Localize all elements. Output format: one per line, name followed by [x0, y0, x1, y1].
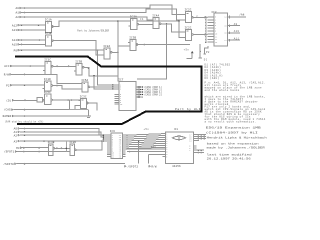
- svg-text:/CAS3 (RAM 2): /CAS3 (RAM 2): [144, 93, 162, 96]
- svg-text:16: 16: [224, 33, 226, 35]
- svg-text:9: 9: [215, 31, 216, 33]
- svg-text:a no result with schematics.: a no result with schematics.: [205, 121, 257, 124]
- svg-text:E: E: [166, 156, 167, 158]
- IC8 pin join vertical: [205, 17, 207, 42]
- gate IC3C: [78, 95, 89, 108]
- wire RAM G row: [127, 148, 162, 150]
- svg-text:Part by Johannes/SOLDER: Part by Johannes/SOLDER: [77, 30, 109, 33]
- wire P0 branch down to IC7: [98, 50, 115, 85]
- svg-text:7: 7: [215, 28, 216, 30]
- svg-text:R/W: R/W: [4, 73, 10, 77]
- gate IC2C: [183, 27, 194, 41]
- svg-text:ACC: ACC: [4, 65, 10, 68]
- svg-text:(D): (D): [6, 98, 12, 102]
- wire A0b: [24, 128, 26, 130]
- svg-text:12: 12: [215, 39, 217, 41]
- gate IC3A: [129, 16, 140, 30]
- svg-text:+5v: +5v: [151, 145, 157, 148]
- svg-text:(C)1984-1997 by HLI: (C)1984-1997 by HLI: [206, 131, 258, 135]
- svg-text:E56/19 Expansion 1MB: E56/19 Expansion 1MB: [206, 126, 261, 130]
- gate IC5A: [80, 79, 91, 92]
- wire IC3A out: [140, 23, 151, 25]
- svg-text:13: 13: [215, 42, 217, 44]
- gate IC1A: [44, 19, 55, 33]
- wire ACC: [30, 65, 32, 67]
- svg-text:/SFOT1: /SFOT1: [4, 150, 15, 154]
- IC7 right short row: [136, 96, 138, 98]
- svg-text:+5v: +5v: [144, 128, 150, 131]
- svg-text:/SFOT2: /SFOT2: [128, 165, 139, 169]
- wire A14: [21, 39, 23, 41]
- wire RAM A row: [148, 153, 162, 155]
- pullup 2: [200, 51, 201, 52]
- wire P0: [21, 49, 23, 51]
- wire A15: [21, 44, 23, 46]
- svg-text:A14: A14: [12, 39, 18, 42]
- svg-text:A0: A0: [15, 7, 19, 10]
- svg-text:R/W: R/W: [151, 165, 157, 169]
- svg-text:5: 5: [215, 22, 216, 24]
- IC7 left pins upper: [115, 84, 120, 86]
- thick section border: [15, 56, 201, 124]
- IC IC8: [211, 11, 227, 46]
- RAM right pins upper: [194, 134, 197, 136]
- wire IC4A node down: [137, 24, 167, 79]
- RAM left pins: [162, 133, 165, 135]
- wire A2b: [24, 134, 26, 136]
- svg-text:44256: 44256: [172, 165, 181, 168]
- svg-text:Hendrik Lipka & Hirschbach: Hendrik Lipka & Hirschbach: [207, 135, 267, 139]
- svg-text:PU: PU: [206, 51, 210, 54]
- svg-text:10: 10: [120, 104, 122, 106]
- wire A2: [24, 16, 26, 18]
- net /SFOT2: [125, 165, 127, 167]
- wire to ground: [70, 109, 89, 111]
- svg-text:A8: A8: [196, 14, 198, 17]
- wire node21 cont: [137, 20, 179, 22]
- wire IC1D out: [56, 85, 58, 87]
- wire P2: [24, 84, 26, 86]
- IC7 right rows CAS RAM: [136, 86, 138, 88]
- svg-text:Part by HLI: Part by HLI: [175, 107, 201, 111]
- svg-text:11: 11: [215, 36, 217, 38]
- wire branch into IC3B: [118, 45, 128, 47]
- wire IC3B out to y76: [88, 67, 90, 69]
- wire M3: [23, 147, 25, 149]
- svg-text:A2: A2: [15, 16, 19, 19]
- svg-text:IC7: IC7: [118, 78, 124, 81]
- gate IC1D: [43, 78, 54, 91]
- svg-text:6: 6: [215, 25, 216, 27]
- wire IC5C out: [67, 99, 69, 101]
- IC6 left pins: [107, 134, 111, 136]
- svg-text:D6 (A0b): D6 (A0b): [205, 77, 220, 80]
- wire IC1B out: [55, 41, 102, 55]
- IC6 to RAM wires: [126, 135, 127, 136]
- gate IC4B: [46, 141, 56, 155]
- wire A1: [24, 12, 26, 14]
- crossing column: [65, 141, 67, 151]
- svg-text:4: 4: [215, 20, 216, 22]
- wire A13: [21, 29, 23, 31]
- wire /CAS: [24, 109, 26, 111]
- IC6 right pins: [123, 134, 126, 136]
- gate IC2A: [102, 45, 113, 59]
- svg-text:7: 7: [189, 150, 190, 152]
- svg-text:26.12.1997 20:41:56: 26.12.1997 20:41:56: [207, 156, 251, 160]
- RAM bottom left pins: [162, 148, 165, 150]
- wire RAM W row: [129, 151, 130, 152]
- pullup 1 +5V arrow: [191, 51, 194, 53]
- svg-text:/SFOT0: /SFOT0: [3, 162, 14, 166]
- comment text block: [205, 63, 266, 123]
- IC IC6: [110, 130, 123, 159]
- wire A0: [24, 7, 26, 9]
- svg-text:4: 4: [120, 89, 121, 91]
- IC8 left pins: [208, 16, 215, 18]
- gate IC1B: [44, 32, 55, 46]
- IC8 bottom pin PU: [205, 46, 208, 53]
- RAM right pins lower: [194, 145, 197, 147]
- RAM notch: [172, 136, 185, 140]
- R/W drop: [147, 154, 149, 163]
- svg-text:3: 3: [215, 17, 216, 19]
- gate IC1C: [43, 59, 54, 75]
- svg-text:15: 15: [224, 25, 226, 27]
- gate IC5C: [44, 91, 54, 104]
- ground symbol: [88, 110, 90, 116]
- svg-text:A12: A12: [12, 24, 18, 27]
- svg-text:M3: M3: [16, 147, 20, 150]
- gate IC3B: [74, 60, 85, 75]
- svg-text:10: 10: [215, 34, 217, 36]
- svg-text:14: 14: [224, 17, 226, 19]
- gate IC2C: [183, 9, 194, 23]
- wire branch to IC7 pin3: [93, 75, 95, 77]
- svg-text:RAMEN: RAMEN: [3, 115, 12, 118]
- svg-text:A15: A15: [12, 44, 18, 47]
- gate IC3B: [128, 37, 139, 51]
- svg-text:P2: P2: [6, 84, 10, 87]
- wire IC2C out: [204, 17, 206, 19]
- IC8 left pin dots: [205, 16, 206, 17]
- vertical to /SFOT2: [138, 141, 139, 142]
- wire IC1A out: [55, 21, 129, 26]
- gate IC4A: [151, 14, 162, 28]
- wire IC2Cb out: [204, 34, 206, 36]
- wire IC2A out: [117, 52, 119, 54]
- IC RAM 44256: [165, 128, 193, 163]
- wire IC3C out: [90, 103, 97, 110]
- svg-text:/A8: /A8: [239, 13, 245, 17]
- svg-text:C1: C1: [140, 18, 144, 21]
- IC6 left pin dots: [103, 135, 104, 136]
- svg-text:17: 17: [224, 40, 226, 42]
- vertical stub x69.5: [69, 100, 71, 110]
- wire RAMEN: [24, 115, 26, 117]
- svg-text:A3: A3: [14, 140, 18, 143]
- wire A12: [21, 24, 23, 26]
- svg-text:(RAM whatley should be +5V): (RAM whatley should be +5V): [5, 120, 44, 123]
- wire R/W: [24, 74, 26, 76]
- svg-text:+5v: +5v: [184, 49, 190, 52]
- svg-text:12: 12: [112, 156, 114, 158]
- inverter pre-IC5C: [37, 97, 42, 102]
- svg-text:P0: P0: [14, 49, 18, 52]
- svg-text:14: 14: [189, 140, 191, 142]
- svg-text:G: G: [166, 151, 167, 153]
- wire /SFOT0: [24, 163, 26, 165]
- svg-text:A1: A1: [15, 12, 19, 15]
- svg-text:A2: A2: [14, 134, 18, 137]
- wire to IC2Cb in2: [178, 20, 180, 22]
- svg-text:/CAS: /CAS: [4, 108, 11, 112]
- svg-text:23: 23: [119, 156, 121, 158]
- RAM right wires lower: [198, 149, 200, 151]
- wire IC2D out: [77, 141, 102, 150]
- wire /SFOT1: [23, 151, 25, 153]
- RAM right wires upper: [198, 134, 200, 136]
- wire IC1C out: [56, 66, 58, 68]
- svg-text:made by .Johannes./SOLDER: made by .Johannes./SOLDER: [207, 145, 265, 149]
- svg-text:D]: D]: [204, 58, 208, 61]
- svg-text:and the whole banks: and the whole banks: [205, 89, 240, 92]
- wire IC4A out: [166, 23, 168, 25]
- wire IC5A out: [91, 86, 114, 88]
- wire IC3B out: [144, 44, 146, 46]
- wire A3b: [24, 140, 26, 142]
- IC7 left pins lower: [115, 93, 120, 95]
- svg-text:A13: A13: [12, 29, 18, 32]
- IC IC7: [118, 78, 136, 110]
- net R/W bottom: [149, 165, 151, 167]
- wire IC4B out: [56, 148, 58, 150]
- wire A1b: [24, 131, 26, 133]
- svg-text:D1: D1: [175, 128, 179, 131]
- gate IC2D: [68, 141, 78, 155]
- wire D: [24, 100, 26, 102]
- wire vertical x118 down: [117, 20, 119, 22]
